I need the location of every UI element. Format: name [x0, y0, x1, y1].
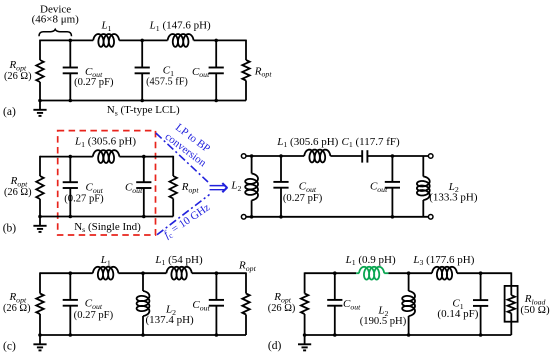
ground (d): [304, 335, 306, 344]
svg-text:(0.14 pF): (0.14 pF): [437, 308, 478, 320]
capacitor Cout (b right, first): [280, 156, 282, 182]
svg-text:Ns (T-type LCL): Ns (T-type LCL): [107, 104, 180, 117]
svg-text:(a): (a): [3, 106, 16, 118]
wire: top rail (b left) segment 2: [119, 156, 173, 158]
green wire stub right of L1 (d): [384, 272, 388, 274]
wire: top rail (d) segment 3: [457, 272, 511, 274]
svg-text:⇒: ⇒: [208, 174, 229, 201]
wire: top rail (d) segment 1: [305, 272, 357, 274]
annotation dash-dot line lower (fc): [157, 195, 210, 235]
capacitor Cout (b right, second): [391, 156, 393, 182]
resistor Ropt (c, right): [242, 294, 249, 315]
capacitor Cout (d): [334, 273, 336, 300]
svg-text:(457.5 fF): (457.5 fF): [146, 76, 188, 87]
resistor Rload (d) boxed: [510, 272, 512, 295]
terminal top-right port (b right): [428, 154, 433, 159]
wire: top rail (d) segment 2: [388, 272, 432, 274]
junction dots (c): [69, 271, 73, 275]
wire: right rail lower segment (c): [245, 315, 247, 336]
svg-text:(190.5 pH): (190.5 pH): [360, 316, 407, 327]
inductor L1 (c, second): [166, 267, 191, 280]
wire: bottom rail (a): [40, 100, 246, 102]
wire: right rail lower segment (b): [172, 199, 174, 217]
svg-text:Ns (Single Ind): Ns (Single Ind): [74, 221, 141, 234]
junction dots (b right): [250, 154, 254, 158]
svg-text:(26 Ω): (26 Ω): [4, 187, 32, 198]
capacitor Cout (a, second): [215, 40, 217, 67]
junction dots (a): [69, 39, 73, 43]
svg-text:(0.27 pF): (0.27 pF): [283, 193, 323, 204]
inductor L2 (d) vertical shunt: [408, 273, 410, 291]
svg-text:(b): (b): [3, 223, 17, 235]
inductor L2 (b right, right shunt) vertical: [422, 156, 424, 177]
wire: bottom rail (b left): [40, 216, 173, 218]
inductor L1 (c, first): [93, 267, 119, 280]
wire: top rail (c) segment 2: [118, 272, 166, 274]
wire: top rail (b left) segment 1: [40, 156, 93, 158]
wire: top rail (a) segment 2: [119, 39, 167, 41]
inductor L1 (b right): [304, 150, 330, 163]
wire: bottom rail (c): [40, 334, 246, 336]
ground (b): [39, 217, 41, 226]
terminal bottom-left port (b right): [241, 215, 246, 220]
resistor Ropt (a, left): [36, 60, 43, 82]
inductor L1 (a, first): [93, 34, 119, 47]
svg-text:(d): (d): [268, 340, 282, 352]
wire: top rail (a) segment 3: [194, 39, 246, 41]
svg-text:(c): (c): [3, 340, 16, 352]
svg-text:(26 Ω): (26 Ω): [4, 71, 32, 82]
wire: bottom rail (b right): [246, 216, 428, 218]
inductor L2 (c) vertical shunt: [142, 273, 144, 291]
wire: top rail (a) segment 1: [40, 39, 93, 41]
resistor Ropt (a, right): [242, 60, 249, 81]
inductor L1 (b): [93, 150, 120, 163]
capacitor Cout (c, second): [215, 273, 217, 300]
wire: top rail (b right) segment 3: [367, 155, 428, 157]
inductor L1 (a, second): [168, 34, 194, 47]
resistor Ropt (d): [301, 294, 308, 315]
wire: left rail upper segment (b): [39, 156, 41, 176]
dashed box Ns single-inductor network (b): [58, 131, 156, 235]
capacitor Cout (b, second): [143, 157, 145, 183]
inductor L3 (d): [432, 267, 457, 280]
terminal top-left port (b right): [241, 154, 246, 159]
wire: left rail upper segment (c): [39, 272, 41, 293]
resistor Ropt (b, right): [170, 176, 177, 199]
svg-text:(133.3 pH): (133.3 pH): [429, 191, 478, 203]
capacitor Cout (b, first): [69, 157, 71, 183]
svg-text:(26 Ω): (26 Ω): [3, 303, 31, 314]
annotation dash-dot line upper (LP to BP): [156, 133, 208, 182]
svg-text:(137.4 pH): (137.4 pH): [145, 314, 194, 326]
svg-text:(0.27 pF): (0.27 pF): [74, 77, 114, 88]
wire: left rail lower segment (c): [39, 314, 41, 335]
wire: right rail lower segment (a): [245, 81, 247, 101]
wire: left rail lower segment (b): [39, 199, 41, 217]
capacitor C1 series (b right): [361, 150, 363, 162]
wire: right rail upper segment (a): [245, 40, 247, 60]
ground (c): [39, 335, 41, 344]
resistor Ropt (b, left): [36, 176, 43, 199]
svg-text:(50 Ω): (50 Ω): [520, 304, 550, 316]
device dimension brace: [39, 29, 72, 36]
inductor L1 (d) green: [359, 267, 384, 280]
wire: left rail upper segment (a): [39, 40, 41, 60]
junction dots (b left): [69, 155, 73, 159]
inductor L2 (b right, left shunt) vertical: [251, 156, 253, 174]
wire: left rail upper segment (d): [304, 272, 306, 293]
junction dots (d): [333, 271, 337, 275]
terminal bottom-right port (b right): [428, 215, 433, 220]
wire: top rail (b right) segment 2: [330, 155, 362, 157]
svg-text:(0.27 pF): (0.27 pF): [74, 310, 114, 321]
wire: top rail (c) segment 1: [40, 272, 93, 274]
green wire stub left of L1 (d): [356, 272, 359, 274]
resistor Ropt (c, left): [36, 294, 43, 315]
ground (a): [39, 101, 41, 110]
wire: top rail (b right) segment 1: [246, 155, 304, 157]
svg-text:(46×8 μm): (46×8 μm): [32, 14, 80, 26]
wire: right rail upper segment (c): [245, 272, 247, 293]
wire: left rail lower segment (a): [39, 82, 41, 101]
capacitor C1 (a): [141, 40, 143, 67]
wire: top rail (c) segment 3: [192, 272, 246, 274]
wire: left rail lower segment (d): [304, 314, 306, 335]
capacitor Cout (c, first): [69, 273, 71, 300]
capacitor Cout (a, first): [69, 40, 71, 67]
wire: right rail upper segment (b): [172, 156, 174, 176]
wire: bottom rail (d): [305, 334, 512, 336]
svg-text:(0.27 pF): (0.27 pF): [64, 193, 104, 204]
capacitor C1 (d): [480, 273, 482, 300]
svg-text:(26 Ω): (26 Ω): [268, 303, 296, 314]
